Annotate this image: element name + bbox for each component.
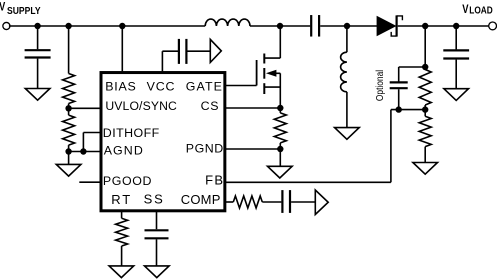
svg-text:PGOOD: PGOOD	[103, 174, 152, 188]
svg-text:VCC: VCC	[147, 80, 176, 94]
svg-text:PGND: PGND	[186, 142, 224, 156]
svg-text:DITHOFF: DITHOFF	[103, 126, 160, 140]
svg-text:GATE: GATE	[186, 80, 223, 94]
svg-text:BIAS: BIAS	[105, 80, 136, 94]
svg-text:V: V	[462, 3, 469, 16]
svg-text:FB: FB	[205, 172, 224, 187]
svg-text:CS: CS	[201, 99, 220, 113]
svg-text:RT: RT	[111, 192, 132, 207]
svg-text:SUPPLY: SUPPLY	[7, 5, 41, 16]
svg-text:SS: SS	[144, 192, 165, 207]
svg-text:V: V	[0, 2, 5, 14]
svg-text:UVLO/SYNC: UVLO/SYNC	[105, 99, 177, 113]
svg-text:AGND: AGND	[104, 143, 144, 157]
svg-text:COMP: COMP	[181, 192, 221, 207]
svg-text:Optional: Optional	[375, 70, 386, 101]
svg-text:LOAD: LOAD	[469, 5, 493, 16]
